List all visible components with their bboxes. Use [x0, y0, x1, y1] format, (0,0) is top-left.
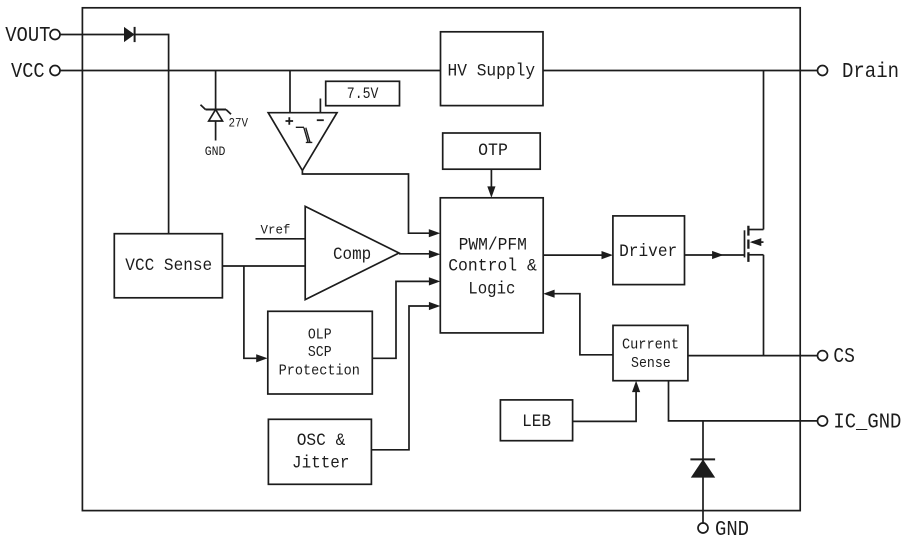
- arrow into OLP: [256, 354, 267, 362]
- svg-text:VCC Sense: VCC Sense: [125, 256, 212, 276]
- OSC & Jitter block: [268, 419, 371, 484]
- wire PWM output to Driver: [543, 254, 602, 256]
- svg-text:IC_GND: IC_GND: [833, 412, 901, 435]
- svg-text:Jitter: Jitter: [292, 454, 349, 474]
- wire MOSFET drain up to Drain rail: [763, 71, 765, 230]
- wire Driver to MOSFET gate: [685, 254, 745, 256]
- arrow on gate wire: [712, 251, 723, 259]
- PWM/PFM Control & Logic block: [440, 198, 543, 333]
- zener tap wire: [215, 71, 217, 110]
- Driver block: [613, 216, 685, 285]
- svg-text:27V: 27V: [229, 116, 249, 130]
- IC boundary box: [82, 8, 800, 511]
- terminal VCC: [11, 61, 60, 84]
- wire diode to VCC Sense (down at x=168.6): [135, 35, 169, 234]
- op-amp U1 (hysteresis comparator): [268, 113, 337, 171]
- svg-text:Driver: Driver: [619, 242, 677, 262]
- VCC Sense block: [114, 234, 222, 298]
- OTP block: [443, 133, 541, 169]
- transistor Q1 (power MOSFET): [745, 226, 764, 262]
- svg-text:Control &: Control &: [448, 257, 537, 277]
- wire VOUT to diode: [60, 34, 124, 36]
- wire Current Sense bottom to IC_GND: [669, 381, 818, 421]
- svg-text:GND: GND: [205, 145, 226, 159]
- 7.5V reference box: [326, 81, 400, 105]
- svg-text:LEB: LEB: [522, 412, 551, 432]
- wire Current Sense to CS terminal: [688, 355, 818, 357]
- svg-text:VCC: VCC: [11, 61, 45, 84]
- arrow into PWM input3: [429, 277, 440, 285]
- wire IC_GND line down to GND through diode: [702, 421, 704, 523]
- svg-text:CS: CS: [833, 346, 855, 369]
- wire OSC to PWM input4: [371, 306, 429, 450]
- terminal CS: [818, 346, 855, 369]
- wire LEB to Current Sense: [573, 391, 637, 421]
- arrow into Current Sense bottom: [632, 381, 640, 392]
- wire VCC rail to HV Supply: [60, 70, 441, 72]
- svg-text:7.5V: 7.5V: [347, 85, 379, 103]
- svg-text:OTP: OTP: [478, 141, 508, 161]
- LEB block: [500, 400, 572, 441]
- Current Sense block: [613, 325, 688, 380]
- wire VCC Sense to Comp minus input: [222, 265, 305, 267]
- wire OLP to PWM input3: [372, 281, 429, 358]
- svg-text:PWM/PFM: PWM/PFM: [459, 235, 527, 255]
- arrow into Driver: [602, 251, 613, 259]
- svg-text:VOUT: VOUT: [5, 25, 50, 48]
- svg-text:Drain: Drain: [842, 61, 899, 84]
- svg-text:HV Supply: HV Supply: [448, 61, 536, 81]
- terminal Drain: [818, 61, 900, 84]
- svg-text:Current: Current: [622, 337, 679, 353]
- svg-text:Logic: Logic: [468, 279, 515, 299]
- comparator U1 plus-input wire: [289, 71, 291, 113]
- svg-text:OLP: OLP: [308, 327, 332, 343]
- wire HV Supply to Drain: [543, 70, 818, 72]
- wire PWM right input from Current Sense: [554, 294, 613, 355]
- svg-text:GND: GND: [715, 519, 749, 541]
- arrow into PWM input1: [429, 229, 440, 237]
- wire MOSFET source down to CS line: [763, 255, 765, 356]
- wire U1 output to PWM input1: [302, 171, 429, 234]
- OLP SCP Protection block: [268, 311, 373, 394]
- HV Supply block: [441, 32, 544, 106]
- diode D1: [124, 27, 135, 42]
- diode D2 (clamp diode to GND): [690, 459, 715, 477]
- svg-text:SCP: SCP: [308, 345, 332, 361]
- terminal IC_GND: [818, 412, 902, 435]
- comparator Comp: [305, 206, 399, 299]
- wire Comp output to PWM input2: [399, 253, 430, 255]
- wire OTP to PWM: [490, 169, 492, 187]
- wire Vref to Comp: [256, 238, 306, 240]
- svg-text:Protection: Protection: [279, 363, 360, 379]
- terminal GND: [698, 519, 749, 542]
- svg-text:Sense: Sense: [631, 356, 671, 372]
- zener diode 27V: [201, 105, 249, 141]
- wire VCC Sense branch to OLP: [244, 266, 257, 358]
- arrow into PWM input4: [429, 302, 440, 310]
- svg-text:Vref: Vref: [261, 223, 291, 238]
- arrow into PWM top: [487, 186, 495, 197]
- svg-text:Comp: Comp: [333, 245, 371, 265]
- terminal VOUT: [5, 25, 60, 48]
- arrow into PWM input2: [429, 250, 440, 258]
- comparator U1 minus-input wire: [319, 99, 321, 114]
- svg-text:OSC &: OSC &: [297, 431, 346, 451]
- arrow into PWM right edge: [543, 290, 554, 298]
